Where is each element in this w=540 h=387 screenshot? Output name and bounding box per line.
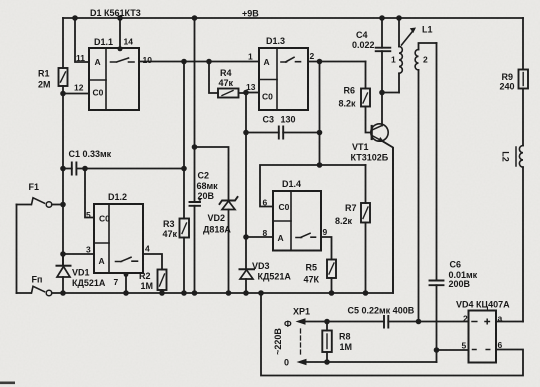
node C1/pin5 junction [82, 166, 88, 172]
wire pin 5 [85, 169, 94, 218]
label C2 68мк 20В [197, 171, 219, 202]
resistor R9 [519, 70, 529, 146]
label L2 [501, 151, 511, 162]
node pin8 junction [243, 234, 249, 240]
node w2 bottom on phase line [416, 319, 422, 325]
resistor R4 [218, 89, 246, 98]
label D1.2 [108, 192, 127, 202]
resistor R1 [59, 68, 68, 86]
wire neutral line [307, 361, 437, 363]
node F1 junction [60, 202, 66, 208]
scan artifact mark [0, 382, 15, 385]
wire +9V top rail [63, 17, 523, 19]
capacitor C4 [376, 18, 391, 93]
net +9В label [242, 9, 259, 19]
wire R1 bottom to VD1 vertical [62, 86, 64, 266]
capacitor C2 [190, 147, 201, 293]
wire pin 4 to R2 [143, 254, 162, 270]
node y165 junction [317, 162, 323, 168]
transistor VT1 [371, 93, 393, 294]
node pin12 junction [60, 91, 66, 97]
label Ф [284, 319, 292, 329]
label C0 cell D1.4 [279, 202, 290, 212]
resistor R5 [327, 260, 336, 294]
resistor R3 [180, 219, 190, 294]
label C0 cell D1.2 [99, 214, 110, 224]
capacitor C5 [384, 316, 388, 328]
pin label 13 [246, 82, 256, 92]
pin label а [498, 313, 503, 323]
pin label 5 VD4 [462, 341, 467, 351]
connector XP1 dashed link [300, 329, 302, 356]
wire pin 8 [246, 236, 273, 238]
connector XP1 phase arrow [296, 318, 306, 324]
label L1 [422, 25, 433, 35]
wire pin 3 [63, 253, 94, 255]
pin label 2 VD4 [463, 314, 468, 324]
diode VD3 [240, 269, 255, 293]
wire pin 11 [75, 18, 89, 62]
label ~220В [273, 328, 283, 355]
label C3 130 [263, 115, 296, 125]
node pin 7 [124, 272, 129, 277]
inductor L2 [516, 146, 523, 322]
label C5 0.22мк 400В [348, 306, 415, 316]
wire pin5 from C6 node [437, 349, 469, 351]
pin label 8 [263, 228, 268, 238]
pin label 6 [263, 198, 268, 208]
label D1.3 [266, 36, 285, 46]
node pin2 junction [317, 59, 323, 65]
label C6 0.01мк 200В [449, 260, 478, 290]
node junctions on +9V rail [72, 15, 402, 21]
node C6 / pin5 junction [434, 347, 440, 353]
label R6 8.2к [339, 86, 357, 109]
label D1 К561КТ3 [90, 8, 141, 18]
resistor R7 [361, 203, 370, 293]
label R8 1М [339, 332, 352, 353]
wire L1 winding1 bottom to C4 node [382, 92, 399, 94]
pin label 10 [143, 55, 153, 65]
wire pin 2 output [308, 61, 366, 63]
arrowhead L1 [410, 28, 416, 34]
switch symbol D1.1 [111, 58, 135, 62]
node R3 branch on pin10 line [181, 59, 187, 65]
node C1/R3 junction [181, 166, 187, 172]
pin label 4 [145, 244, 150, 254]
op-amp U D1.3 box [259, 48, 308, 110]
switch F1 [17, 198, 64, 208]
wire pin 12 [63, 93, 89, 95]
node C3 left junction [243, 130, 249, 136]
label D1.1 [94, 37, 113, 47]
label C1 0.33мк [69, 149, 112, 159]
wire right column from rail to R9 [522, 18, 524, 70]
node pin3 junction [60, 251, 66, 257]
node R8 bottom [324, 359, 330, 365]
emitter arrow VT1 [378, 137, 385, 142]
pin label 3 [86, 245, 91, 255]
wire F1 to Fп left vertical [16, 205, 18, 294]
label R4 47к [219, 68, 234, 88]
diode VD1 [57, 254, 71, 293]
wire R7 from y165 [365, 165, 367, 203]
label A cell D1.1 [95, 57, 101, 67]
label VD3 КД521А [252, 261, 291, 282]
wire junction to VD2 [195, 147, 229, 200]
wire pin2 to R6 [365, 62, 367, 89]
wire pin 7 [125, 273, 127, 293]
resistor R2 [158, 270, 167, 294]
label 1 winding [391, 55, 396, 65]
label VD1 КД521А [72, 268, 106, 289]
wire left vertical from rail to R1 [62, 18, 64, 68]
connector XP1 neutral arrow [297, 359, 307, 365]
wire VD4 pin а to right column [496, 321, 523, 323]
wire winding2 top to C6 vertical [436, 43, 438, 281]
label C0 cell D1.3 [262, 92, 273, 102]
pin label 12 [74, 83, 84, 93]
node R8 top [324, 319, 330, 325]
label VT1 КТ3102Б [351, 142, 389, 163]
label R3 47к [163, 219, 178, 239]
node R4/pin13 junction [243, 90, 249, 96]
wire y165 horizontal to pin6 and R7 [260, 165, 366, 207]
label A cell D1.2 [99, 256, 105, 266]
label A cell D1.3 [264, 57, 270, 67]
switch symbol D1.4 [296, 233, 316, 237]
pin label 14 [124, 37, 134, 47]
capacitor C1 [63, 163, 85, 175]
wire pin 10 line to D1.3 pin 1 [139, 61, 259, 63]
label C4 0.022 [352, 30, 375, 50]
label VD4 КЦ407А [456, 300, 510, 310]
node R4 branch on pin10 line [206, 59, 212, 65]
label R5 47К [304, 263, 320, 285]
node pin 14 [118, 46, 123, 51]
bridge rectifier VD4 [469, 311, 497, 363]
inductor L1 winding 1 [399, 18, 402, 93]
polarity mark C2 [198, 198, 201, 201]
op-amp U D1.1 box [89, 48, 139, 110]
label R1 2М [38, 69, 51, 90]
pin label 9 [323, 227, 328, 237]
wire bottom common rail [52, 148, 393, 293]
wire phase line XP1 to VD4 pin2 [305, 321, 469, 323]
label R2 1М [139, 271, 153, 291]
pin label 2 [310, 51, 315, 61]
switch symbol D1.3 [281, 57, 301, 62]
label A cell D1.4 [278, 233, 284, 243]
wire pin 14 [119, 18, 121, 48]
wire pin2 vertical to y165 [319, 62, 321, 166]
pin label 6 VD4 [498, 340, 503, 350]
label Fп [32, 275, 43, 285]
label F1 [29, 182, 40, 192]
label R7 8.2к [335, 203, 357, 226]
op-amp U D1.2 box [94, 204, 143, 273]
node junctions on bottom rail [60, 290, 368, 296]
label 2 winding [423, 55, 428, 65]
wire C2/VD2 branch from +9V rail [194, 18, 196, 147]
pin label 7 [114, 277, 119, 287]
wire C1 to R3 vertical junction [85, 168, 184, 170]
wire R3 vertical branch [183, 62, 185, 219]
switch Fп [17, 286, 52, 296]
inductor L1 winding 2 [415, 43, 436, 322]
wire pin13 vertical long net [245, 93, 247, 270]
label C0 cell D1.1 [93, 88, 104, 98]
capacitor C3 [246, 127, 320, 139]
wire pin6 loop to XP1 frame [261, 293, 523, 376]
wire pin 9 to R5 [321, 237, 332, 260]
resistor R6 [361, 89, 371, 133]
label D1.4 [282, 179, 301, 189]
node C3 right junction [317, 130, 323, 136]
label XP1 [293, 307, 310, 317]
pin label 11 [76, 53, 85, 63]
pin label 1 [248, 52, 253, 62]
switch symbol D1.2 [116, 257, 138, 261]
wire pin 13 [246, 92, 259, 94]
node C2/VD2 junction [192, 144, 198, 150]
label VD2 Д818А [203, 213, 231, 235]
node C1 left junction [60, 166, 66, 172]
pin label 5 [86, 210, 91, 220]
node C4/L1 junction [379, 90, 385, 96]
op-amp U D1.4 box [273, 191, 321, 251]
wire R4 branch [209, 62, 218, 94]
capacitor C6 [430, 281, 444, 363]
label R9 240 [500, 72, 515, 92]
label 0 [284, 358, 289, 368]
resistor R8 [322, 322, 332, 363]
zener VD2 [220, 197, 238, 293]
adjustment arrow L1 [402, 30, 415, 46]
